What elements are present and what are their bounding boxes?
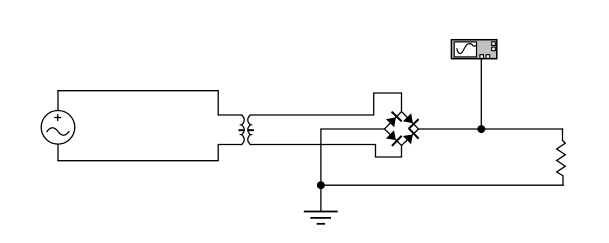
wire ground stem [320,185,322,211]
ground symbol [305,212,337,224]
wire secondary bottom to bridge bottom [250,145,401,158]
wire bottom lead of V1 [57,144,59,161]
node junction dot at ground [317,181,325,189]
transformer T1 primary tap dash [240,129,244,131]
diode D4 bottom-right [403,129,418,144]
diode D2 top-right [403,113,418,128]
transformer T1 primary winding cusp ticks [240,125,242,135]
wire bridge right vertex to resistor [419,128,563,130]
bridge diamond edges [385,112,419,146]
wire scope probe [480,58,482,129]
transformer T1 secondary winding [248,115,251,145]
AC source V1 [41,111,75,145]
wire primary bottom [58,145,242,161]
wire top lead of V1 [57,91,59,111]
wire secondary top to bridge top [250,93,401,115]
oscilloscope XSC1 [451,40,496,59]
resistor R1 [557,129,566,185]
wire load bottom return [321,184,563,186]
transformer T1 secondary tap dash [249,129,253,131]
wire primary top [58,91,242,115]
diode D1 top-left [386,112,401,127]
wire bridge left vertex to ground node [321,129,385,185]
transformer T1 secondary winding cusp ticks [250,125,252,135]
transformer T1 primary winding [242,115,245,145]
diode D3 bottom-left [386,130,401,145]
node junction dot at scope [477,125,485,133]
